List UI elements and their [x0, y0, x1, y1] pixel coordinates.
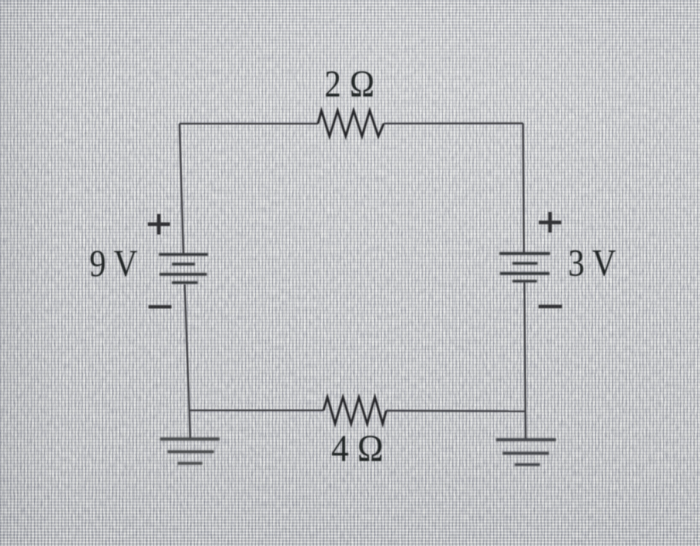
ground G1 bar 3	[178, 462, 203, 465]
ground G2 bar 3	[515, 463, 540, 466]
wire bottom left segment	[189, 409, 323, 411]
wire left vertical lower	[185, 284, 191, 438]
ground G1 bar 2	[168, 450, 215, 453]
svg-text:9 V: 9 V	[89, 242, 137, 285]
battery V1 plate short 2	[172, 281, 198, 284]
wire bottom right segment	[386, 410, 525, 413]
ground G2 bar 2	[503, 452, 550, 455]
battery V1 minus sign	[149, 305, 172, 308]
wire left vertical upper	[180, 124, 184, 254]
battery V2 plus sign	[539, 212, 562, 233]
battery V2 plate short 2	[512, 280, 537, 283]
battery V1 plate long bottom	[159, 273, 207, 276]
wire right vertical upper	[522, 123, 525, 253]
svg-text:3 V: 3 V	[568, 241, 616, 284]
wire top right segment	[384, 122, 523, 124]
battery V2 minus sign	[539, 305, 563, 308]
battery V2 plate short 1	[512, 262, 537, 265]
battery V1 plus sign	[148, 214, 170, 235]
battery V2 plate long bottom	[500, 272, 550, 275]
ground G2 bar 1	[496, 438, 556, 441]
battery V1 plate long top	[159, 253, 208, 256]
svg-text:4 Ω: 4 Ω	[331, 427, 383, 470]
wire top	[180, 123, 319, 125]
svg-text:2 Ω: 2 Ω	[325, 62, 375, 104]
resistor R2 zigzag (4 ohm)	[324, 397, 387, 424]
battery V2 plate long top	[499, 252, 550, 255]
wire right vertical lower	[524, 282, 525, 439]
resistor R1 zigzag (2 ohm)	[318, 111, 384, 137]
battery V1 plate short 1	[172, 263, 195, 266]
ground G1 bar 1	[160, 437, 220, 440]
